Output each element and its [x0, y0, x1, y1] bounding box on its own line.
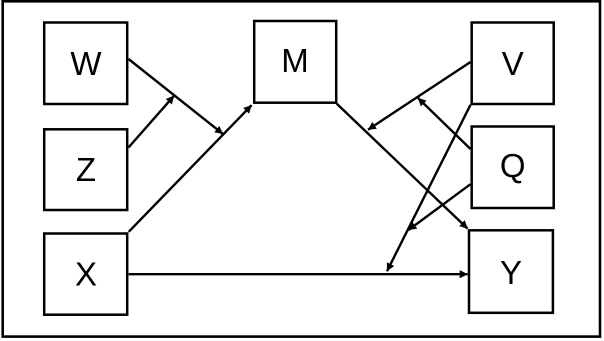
svg-text:Z: Z	[76, 151, 96, 188]
box M	[254, 21, 336, 103]
box V	[472, 23, 554, 105]
svg-text:Q: Q	[500, 147, 526, 184]
arrow M to Y	[337, 104, 468, 229]
box W	[44, 23, 127, 105]
box Q	[472, 127, 554, 209]
arrow Q to V arrow upper	[418, 98, 471, 149]
svg-text:M: M	[281, 42, 309, 79]
arrow Q to V arrow lower	[409, 184, 471, 230]
arrow V to M-Y path	[368, 62, 471, 130]
svg-text:X: X	[75, 256, 97, 293]
box X	[44, 234, 127, 315]
box Y	[469, 230, 553, 312]
box Z	[44, 129, 127, 210]
svg-text:W: W	[70, 45, 102, 82]
arrow X to Y	[129, 273, 468, 275]
arrow V to X-Y path	[387, 105, 471, 271]
svg-text:Y: Y	[500, 254, 522, 291]
arrow W to X-M path	[129, 59, 224, 134]
arrow Z to W arrow	[129, 96, 175, 148]
arrow X to M	[129, 105, 252, 232]
svg-text:V: V	[502, 45, 524, 82]
